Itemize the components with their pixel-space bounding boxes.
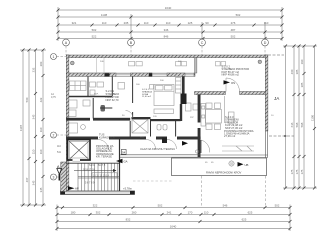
svg-text:625: 625 (248, 211, 253, 215)
WC dark (101, 105, 106, 112)
svg-text:ULAZ NA KROVNU TERASU: ULAZ NA KROVNU TERASU (140, 147, 175, 151)
svg-text:190: 190 (300, 59, 304, 64)
left outside tiny dims (51, 93, 99, 154)
svg-text:1100: 1100 (311, 115, 315, 122)
right unit south glass (200, 155, 268, 158)
wall cabinet top room (118, 83, 125, 90)
svg-text:110: 110 (32, 149, 36, 154)
svg-text:OS: OS (231, 81, 235, 85)
right leaders (268, 54, 284, 56)
svg-text:1: 1 (53, 55, 55, 59)
svg-text:110: 110 (57, 145, 61, 148)
svg-text:110: 110 (144, 21, 149, 25)
svg-text:02: 02 (230, 162, 234, 166)
svg-text:385: 385 (300, 82, 304, 87)
dining table + chairs (206, 110, 222, 124)
boxed label 54 (121, 150, 126, 155)
svg-text:A: A (57, 164, 60, 169)
svg-text:598: 598 (300, 122, 304, 127)
svg-text:170: 170 (188, 211, 193, 215)
stair bottom exterior wall (61, 191, 135, 194)
svg-text:110: 110 (102, 21, 107, 25)
svg-text:NKP 49,86 m2: NKP 49,86 m2 (222, 73, 240, 77)
svg-text:UB: UB (245, 163, 249, 167)
svg-text:422: 422 (39, 97, 43, 102)
svg-text:345: 345 (32, 114, 36, 119)
svg-text:232: 232 (32, 67, 36, 72)
svg-text:235: 235 (124, 21, 129, 25)
svg-text:54: 54 (122, 151, 126, 155)
svg-text:1640: 1640 (170, 225, 177, 229)
terrace strip thin line under top wall (69, 72, 195, 74)
svg-text:502: 502 (231, 35, 236, 39)
svg-text:KUP.: KUP. (94, 94, 99, 96)
svg-text:C: C (201, 41, 204, 45)
svg-text:846: 846 (164, 35, 169, 39)
bed master (154, 85, 174, 106)
wash basins bath1 (90, 82, 96, 87)
closet strip right of bed (176, 78, 182, 94)
svg-text:502: 502 (236, 13, 241, 17)
misc small dim texts inside plan (100, 61, 274, 164)
svg-text:625: 625 (242, 218, 247, 222)
top exterior wall (66, 55, 267, 58)
svg-text:1138: 1138 (101, 13, 108, 17)
entrance door arc (201, 140, 210, 152)
svg-text:8x17,5: 8x17,5 (98, 164, 106, 167)
svg-text:241: 241 (167, 211, 172, 215)
bidet + wc pair (157, 125, 161, 131)
svg-text:S 18 17 16: S 18 17 16 (83, 169, 95, 172)
svg-text:AP: AP (75, 187, 79, 191)
svg-text:1107: 1107 (19, 125, 23, 132)
cubby closet top-left room (70, 81, 87, 91)
bath2 fixtures (68, 100, 77, 108)
svg-text:110: 110 (166, 21, 171, 25)
kitchen right room (229, 112, 235, 123)
bath3 fixtures below (67, 123, 78, 133)
elevator shaft (68, 140, 91, 162)
grid bubble C (199, 39, 206, 55)
columns dots (70, 61, 74, 65)
svg-text:175: 175 (300, 169, 304, 174)
svg-text:125: 125 (188, 21, 193, 25)
S.2.0.2 left wall (195, 58, 197, 73)
dresser under bed (154, 109, 174, 114)
S.2.0.2 bottom wall right seg (240, 92, 266, 95)
svg-text:110: 110 (264, 21, 269, 25)
svg-text:260: 260 (132, 211, 137, 215)
svg-text:560: 560 (25, 97, 29, 102)
small room right of elevator walls (119, 140, 121, 194)
JA marker (274, 96, 280, 101)
grid bubble 1 (51, 54, 67, 60)
right exterior wall upper (265, 55, 268, 131)
small bath fixtures (x185-199) (186, 103, 192, 111)
svg-text:JA: JA (274, 96, 280, 101)
door swing S.2.0.2 (226, 78, 240, 92)
svg-text:502: 502 (92, 28, 97, 32)
svg-text:616: 616 (290, 122, 294, 127)
grid bubble D (262, 39, 269, 55)
svg-text:110: 110 (39, 127, 43, 132)
grid bubble B (128, 39, 135, 55)
svg-text:502: 502 (275, 204, 280, 208)
svg-text:345: 345 (39, 187, 43, 192)
tub with X (132, 120, 148, 134)
bedroom door arc (126, 111, 134, 119)
window lines in second wall gaps (116, 73, 194, 76)
svg-text:1640: 1640 (165, 6, 172, 10)
svg-text:KR. TERASE: KR. TERASE (96, 154, 112, 158)
corridor top wall (66, 137, 200, 140)
svg-text:460: 460 (290, 69, 294, 74)
left exterior wall (66, 55, 69, 191)
svg-text:467: 467 (25, 177, 29, 182)
stair label (89, 164, 106, 167)
svg-text:D: D (264, 41, 267, 45)
S.2.0.2 bottom wall left seg (195, 92, 226, 95)
svg-text:11,60 m2: 11,60 m2 (142, 96, 152, 98)
section marker arrows (black) (68, 80, 244, 190)
02 circle on balcony (229, 161, 234, 166)
svg-text:598: 598 (295, 122, 299, 127)
svg-text:GA: GA (124, 160, 128, 164)
svg-text:NKP 62,70: NKP 62,70 (106, 98, 119, 102)
svg-text:90: 90 (205, 21, 209, 25)
right glass wall lower (265, 131, 267, 158)
svg-text:276: 276 (231, 21, 236, 25)
grid bubble A (63, 39, 70, 55)
svg-text:541: 541 (57, 151, 62, 154)
svg-text:RAVNI NEPROHODNI KROV: RAVNI NEPROHODNI KROV (206, 171, 242, 175)
svg-text:546: 546 (223, 204, 228, 208)
svg-text:110: 110 (204, 211, 209, 215)
corridor doors arcs (98, 140, 177, 151)
svg-text:322: 322 (93, 204, 98, 208)
svg-text:346: 346 (164, 28, 169, 32)
terrace / balcony strip (172, 158, 267, 176)
svg-text:3: 3 (53, 175, 55, 179)
interior thin walls vertical (88, 76, 176, 136)
svg-text:385: 385 (295, 69, 299, 74)
second north wall (66, 73, 195, 76)
dashed verticals below building (201, 176, 203, 207)
svg-text:175: 175 (290, 169, 294, 174)
svg-text:27,36 m2: 27,36 m2 (224, 134, 236, 138)
black shaft on corridor wall (162, 138, 167, 144)
svg-text:175: 175 (295, 169, 299, 174)
grid bubble 2 (51, 132, 67, 138)
mid vertical wall (dining left) (198, 95, 201, 123)
grid bubble 3 (51, 174, 62, 180)
svg-text:302: 302 (96, 211, 101, 215)
terrace vents (129, 62, 226, 66)
svg-text:KUPAONICA: KUPAONICA (99, 135, 115, 139)
svg-text:+5,78m: +5,78m (123, 187, 133, 191)
svg-text:10 11 12 13 14: 10 11 12 13 14 (93, 175, 109, 178)
stair left lower wall (61, 162, 67, 192)
svg-text:345: 345 (32, 180, 36, 185)
terrace rail divisions (96, 58, 98, 73)
svg-text:832: 832 (126, 218, 131, 222)
svg-text:S.2.1: S.2.1 (89, 164, 95, 167)
interior horizontal walls (66, 118, 90, 121)
svg-text:487: 487 (231, 28, 236, 32)
svg-text:522: 522 (92, 35, 97, 39)
stair step numbers (92, 173, 117, 178)
apartment divider vertical (182, 76, 185, 104)
svg-text:5 6 7 8 9: 5 6 7 8 9 (85, 182, 95, 185)
section marker A (top) (57, 164, 62, 181)
svg-text:502: 502 (158, 204, 163, 208)
svg-text:2: 2 (53, 133, 55, 137)
landing line under elevator (66, 162, 119, 164)
svg-text:180: 180 (71, 211, 76, 215)
svg-text:203: 203 (39, 61, 43, 66)
corridor south glass (120, 155, 201, 157)
svg-text:321: 321 (72, 21, 77, 25)
svg-text:0,75: 0,75 (51, 96, 56, 99)
svg-text:110: 110 (39, 149, 43, 154)
